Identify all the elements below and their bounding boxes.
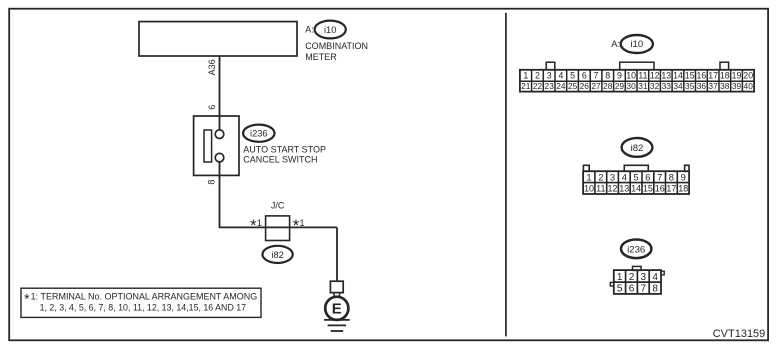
connector i82 pin numbers 1-9 (586, 172, 685, 183)
svg-text:3: 3 (641, 272, 647, 283)
svg-text:J/C: J/C (271, 201, 285, 211)
svg-text:4: 4 (558, 71, 563, 81)
svg-text:14: 14 (631, 184, 641, 194)
svg-text:CVT13159: CVT13159 (713, 328, 766, 340)
svg-text:23: 23 (545, 81, 555, 91)
svg-text:1: 1 (617, 272, 623, 283)
svg-text:i10: i10 (630, 39, 643, 50)
svg-text:36: 36 (697, 81, 707, 91)
svg-text:AUTO START STOP: AUTO START STOP (243, 145, 326, 155)
svg-text:15: 15 (643, 184, 653, 194)
svg-text:13: 13 (619, 184, 629, 194)
connector i236 pin numbers 1-4 (617, 272, 658, 283)
svg-text:i236: i236 (627, 244, 645, 255)
connector i82 pinout: body and tabs (583, 165, 689, 194)
junction connector J/C box (266, 216, 290, 241)
svg-text:6: 6 (582, 71, 587, 81)
svg-text:3: 3 (547, 71, 552, 81)
svg-text:4: 4 (622, 172, 627, 183)
svg-text:39: 39 (732, 81, 742, 91)
svg-text:12: 12 (607, 184, 617, 194)
svg-text:10: 10 (626, 71, 636, 81)
svg-text:i10: i10 (324, 25, 336, 35)
svg-text:16: 16 (655, 184, 665, 194)
svg-text:9: 9 (681, 172, 686, 183)
switch terminal pin 6 (circle) (215, 130, 224, 139)
svg-text:19: 19 (732, 71, 742, 81)
svg-text:2: 2 (629, 272, 635, 283)
svg-text:CANCEL SWITCH: CANCEL SWITCH (243, 154, 317, 164)
svg-text:5: 5 (570, 71, 575, 81)
svg-text:10: 10 (584, 184, 594, 194)
svg-text:8: 8 (652, 284, 658, 295)
svg-text:20: 20 (743, 71, 753, 81)
connector i10 pin numbers 1-20 (523, 71, 753, 81)
svg-text:40: 40 (744, 81, 754, 91)
svg-text:12: 12 (650, 71, 660, 81)
svg-text:4: 4 (652, 272, 658, 283)
combination meter block (139, 22, 297, 56)
svg-text:A:: A: (305, 25, 314, 35)
svg-text:33: 33 (662, 81, 672, 91)
connector i10 pin numbers 21-40 (521, 81, 753, 91)
ground E circle (325, 297, 348, 320)
svg-text:8: 8 (207, 180, 217, 185)
svg-text:31: 31 (638, 81, 648, 91)
svg-text:35: 35 (685, 81, 695, 91)
svg-text:15: 15 (685, 71, 695, 81)
svg-text:1: 1 (586, 172, 591, 183)
svg-text:A:: A: (611, 39, 620, 49)
svg-text:14: 14 (673, 71, 683, 81)
divider line between schematic and connector views (505, 13, 507, 337)
svg-text:9: 9 (617, 71, 622, 81)
svg-text:7: 7 (594, 71, 599, 81)
svg-text:1: 1 (257, 218, 262, 228)
svg-text:16: 16 (697, 71, 707, 81)
svg-text:34: 34 (673, 81, 683, 91)
connector i236 pin numbers 5-8 (617, 284, 658, 295)
svg-text:28: 28 (603, 81, 613, 91)
svg-text:21: 21 (521, 81, 531, 91)
svg-text:37: 37 (708, 81, 718, 91)
svg-text:METER: METER (305, 52, 337, 62)
svg-text:27: 27 (591, 81, 601, 91)
svg-text:6: 6 (645, 172, 650, 183)
svg-text:A36: A36 (207, 59, 217, 75)
ground connector square (330, 281, 343, 292)
svg-text:7: 7 (657, 172, 662, 183)
svg-text:1: 1 (300, 218, 305, 228)
svg-text:5: 5 (633, 172, 638, 183)
svg-text:i82: i82 (271, 250, 283, 260)
wire: switch pin 8 down then right to J/C (220, 162, 338, 228)
svg-text:17: 17 (666, 184, 676, 194)
svg-text:*: * (24, 291, 30, 307)
connector i236 pinout: body and tabs (610, 266, 664, 294)
ground stroke lines (324, 319, 350, 321)
svg-text:E: E (332, 301, 342, 318)
svg-text:25: 25 (568, 81, 578, 91)
svg-text:1: TERMINAL No. OPTIONAL ARRAN: 1: TERMINAL No. OPTIONAL ARRANGEMENT AMO… (31, 292, 258, 302)
svg-text:7: 7 (641, 284, 647, 295)
svg-text:13: 13 (661, 71, 671, 81)
svg-text:5: 5 (617, 284, 623, 295)
wire A36: combination meter pin to switch pin 6 (219, 56, 221, 130)
svg-text:6: 6 (207, 105, 217, 110)
svg-text:22: 22 (533, 81, 543, 91)
connector i236 pinout: ellipse (621, 240, 651, 259)
footnote box *1 (21, 288, 261, 317)
svg-text:32: 32 (650, 81, 660, 91)
svg-text:26: 26 (580, 81, 590, 91)
switch terminal pin 8 (circle) (215, 153, 224, 162)
svg-text:1, 2, 3, 4, 5, 6, 7, 8, 10, 11: 1, 2, 3, 4, 5, 6, 7, 8, 10, 11, 12, 13, … (40, 302, 247, 312)
wire: J/C to ground E (336, 227, 338, 281)
svg-text:6: 6 (629, 284, 635, 295)
connector i82 pinout: ellipse (622, 138, 653, 157)
svg-text:3: 3 (610, 172, 615, 183)
svg-text:11: 11 (638, 71, 647, 81)
connector i82 pin numbers 10-18 (584, 184, 688, 194)
svg-text:11: 11 (596, 184, 605, 194)
svg-text:38: 38 (720, 81, 730, 91)
svg-text:30: 30 (626, 81, 636, 91)
svg-text:29: 29 (615, 81, 625, 91)
svg-text:8: 8 (605, 71, 610, 81)
svg-text:18: 18 (720, 71, 730, 81)
svg-text:24: 24 (556, 81, 566, 91)
connector i10 pinout: ellipse (621, 35, 653, 53)
svg-text:2: 2 (598, 172, 603, 183)
svg-text:COMBINATION: COMBINATION (305, 41, 368, 51)
connector label i10 ellipse (left) (315, 21, 346, 39)
connector label i236 ellipse (left) (243, 125, 274, 142)
svg-text:i236: i236 (250, 129, 268, 139)
svg-text:8: 8 (669, 172, 674, 183)
connector i10 pinout: body and tabs (520, 62, 754, 91)
switch box i236 (AUTO START STOP CANCEL SWITCH) (194, 116, 239, 175)
svg-text:18: 18 (678, 184, 688, 194)
svg-text:17: 17 (708, 71, 718, 81)
connector label i82 ellipse (left) (263, 246, 293, 263)
svg-text:1: 1 (523, 71, 528, 81)
svg-text:i82: i82 (631, 143, 644, 154)
ground neck (334, 293, 335, 298)
svg-text:2: 2 (535, 71, 540, 81)
